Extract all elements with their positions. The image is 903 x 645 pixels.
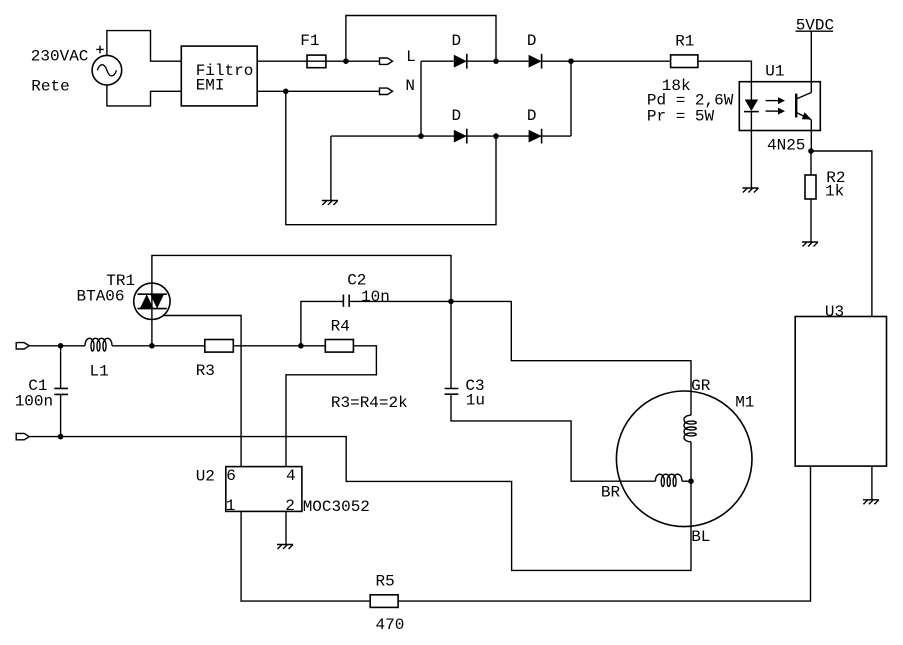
ground R2 [802, 242, 818, 247]
svg-text:Pr = 5W: Pr = 5W [647, 107, 715, 125]
capacitor C3 [445, 389, 459, 395]
svg-text:BL: BL [691, 528, 710, 546]
svg-text:1: 1 [226, 497, 236, 515]
control block U3 [795, 317, 886, 467]
op-amp U1 optocoupler box [739, 82, 820, 131]
wire filter output L to fuse [257, 60, 307, 62]
wire neutral input rail to motor BL [29, 437, 691, 571]
resistor R5 [370, 595, 398, 608]
svg-text:230VAC: 230VAC [31, 47, 89, 65]
diode D top-left [454, 54, 467, 69]
connector phase input [16, 343, 29, 349]
LED inside U1 [744, 82, 759, 131]
svg-text:1k: 1k [825, 183, 844, 201]
diode D bottom-left [454, 129, 467, 144]
wire bridge bottom row [331, 135, 571, 137]
wire emitter to junction [810, 120, 812, 151]
junction at F1 output [343, 58, 349, 64]
EMI filter block [181, 46, 257, 106]
junction bridge top center [493, 58, 499, 64]
junction bridge bottom left [418, 133, 424, 139]
phototransistor inside U1 [796, 93, 811, 120]
wire C1 bottom leg [60, 395, 62, 437]
wire bridge right vertical [570, 61, 572, 136]
wire phase input to L1 [29, 345, 85, 347]
svg-text:100n: 100n [15, 392, 53, 410]
wire junction to U3 top [811, 151, 872, 317]
wire AC source bottom to EMI filter input [107, 85, 181, 106]
resistor R4 [325, 340, 353, 353]
wire R4 to U2 pin4 [286, 346, 376, 467]
junction bridge bottom center [493, 133, 499, 139]
wire filter output N to N connector [257, 90, 379, 92]
svg-text:10n: 10n [361, 288, 390, 306]
wire U2 pin2 to ground [285, 511, 287, 544]
svg-text:R5: R5 [376, 572, 395, 590]
svg-text:M1: M1 [735, 393, 754, 411]
wire fuse to L connector [326, 60, 380, 62]
junction C2 right node [448, 299, 454, 305]
5VDC underline [796, 30, 834, 32]
wire 5VDC to collector [810, 31, 812, 92]
svg-text:BTA06: BTA06 [77, 287, 125, 305]
inductor L1 [85, 338, 112, 351]
svg-text:Rete: Rete [31, 78, 69, 96]
svg-text:1u: 1u [466, 392, 485, 410]
wire R1 to optocoupler anode [698, 61, 752, 81]
svg-text:BR: BR [601, 484, 621, 502]
resistor R3 [205, 340, 234, 353]
resistor R2 [805, 175, 816, 199]
svg-text:R3: R3 [196, 362, 215, 380]
junction C1 bottom [58, 434, 64, 440]
svg-text:GR: GR [691, 377, 711, 395]
wire C2 right leg to junction [349, 300, 451, 302]
wire TR1 top rail to C2 junction [152, 255, 451, 301]
motor GR winding [684, 415, 696, 442]
wire bridge left vertical [420, 61, 422, 136]
triac TR1 [134, 283, 170, 319]
svg-text:EMI: EMI [196, 77, 225, 95]
junction TR1 main rail [149, 343, 155, 349]
ground bridge [322, 201, 338, 206]
wire TR1 gate to U2 pin6 [164, 316, 242, 467]
connector L [380, 58, 393, 64]
svg-text:D: D [527, 32, 537, 50]
svg-text:6: 6 [226, 467, 236, 485]
diode D bottom-right [529, 129, 542, 144]
connector N [380, 88, 393, 94]
wire N to bridge bottom center [286, 91, 496, 224]
ground U2 [277, 545, 293, 550]
svg-text:MOC3052: MOC3052 [303, 498, 370, 516]
wire bridge top row [421, 60, 671, 62]
AC source V1 230VAC [92, 55, 122, 85]
svg-text:L: L [406, 48, 416, 66]
fuse F1 [307, 55, 326, 68]
svg-text:2: 2 [285, 497, 295, 515]
svg-text:C2: C2 [347, 271, 366, 289]
plus sign of AC source [96, 46, 104, 54]
motor BR winding [655, 474, 682, 486]
diode D top-right [529, 54, 542, 69]
wire LED cathode to ground [750, 131, 752, 189]
connector neutral input [16, 433, 29, 439]
motor M1 [616, 391, 752, 527]
junction bridge top right [568, 58, 574, 64]
wire bridge bottom-left to ground [330, 136, 332, 200]
wire U3 bottom right to ground [871, 466, 873, 500]
ground LED cathode [742, 188, 758, 193]
wire C3 to motor BR [451, 395, 655, 481]
svg-text:N: N [405, 77, 415, 95]
svg-text:D: D [527, 107, 537, 125]
svg-text:R1: R1 [675, 33, 694, 51]
ground U3 [863, 500, 879, 505]
junction emitter node [808, 148, 814, 154]
svg-text:D: D [452, 107, 462, 125]
wire junction to R2 [810, 151, 812, 175]
svg-text:U3: U3 [825, 303, 844, 321]
svg-text:4N25: 4N25 [767, 137, 805, 155]
wire top bypass from fuse junction to bridge top center [346, 16, 496, 62]
wire C1 top leg [60, 346, 62, 389]
wire C2 left leg [301, 301, 344, 345]
wire GR winding to center [690, 442, 692, 481]
svg-text:L1: L1 [90, 362, 109, 380]
junction C2 left [298, 343, 304, 349]
capacitor C1 [54, 388, 68, 394]
junction at filter N output [283, 89, 289, 95]
wire L1 to R3 [112, 345, 205, 347]
wire U2 pin1 to R5 [241, 511, 370, 601]
svg-text:F1: F1 [300, 32, 319, 50]
svg-text:R3=R4=2k: R3=R4=2k [331, 394, 408, 412]
junction C1 top [58, 343, 64, 349]
wire BR winding to center [682, 480, 691, 482]
resistor R1 [671, 55, 698, 68]
wire C2 node to motor GR [451, 301, 691, 415]
wire R2 to ground [810, 199, 812, 242]
light arrows inside U1 [766, 97, 785, 115]
junction motor center [688, 478, 694, 484]
svg-text:4: 4 [286, 467, 296, 485]
wire R5 to U3 bottom [398, 466, 810, 601]
wire AC source top to EMI filter input [107, 31, 181, 62]
wire R3 to R4 [233, 345, 325, 347]
svg-text:R4: R4 [331, 318, 350, 336]
svg-text:470: 470 [376, 616, 405, 634]
svg-text:D: D [452, 32, 462, 50]
svg-text:U2: U2 [196, 467, 215, 485]
wire TR1 bottom to main rail [151, 283, 153, 346]
wire junction to C3 [450, 301, 452, 388]
capacitor C2 [343, 295, 349, 307]
svg-text:U1: U1 [765, 63, 784, 81]
optotriac U2 MOC3052 box [226, 467, 302, 512]
